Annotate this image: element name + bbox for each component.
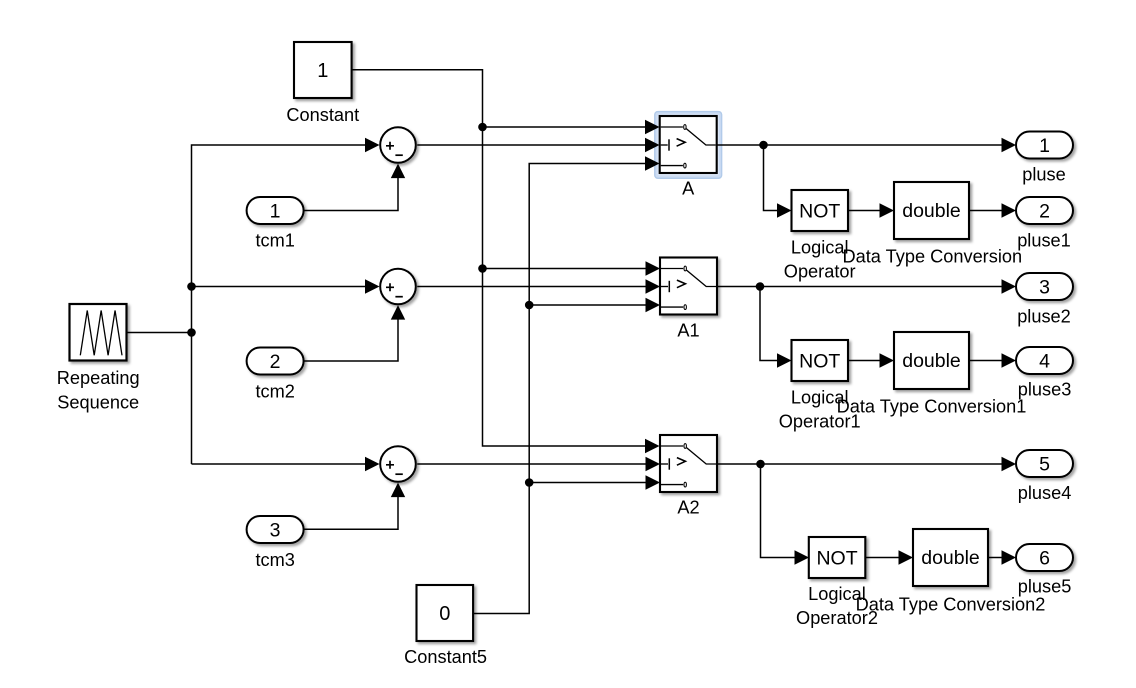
wire NOT1 to double1 row2: [848, 360, 880, 362]
wire Sum2 output to Switch A1 input 2: [417, 286, 645, 288]
svg-text:1: 1: [270, 201, 281, 223]
inport tcm1: [247, 197, 304, 224]
wire branch rail x191 to Sum2 input: [192, 286, 366, 288]
svg-text:A2: A2: [677, 498, 699, 518]
junction at rail x529 row A1 input3: [525, 301, 534, 310]
svg-text:pluse5: pluse5: [1018, 577, 1072, 597]
block double1 Data Type Conversion1: [894, 332, 969, 389]
sum block Sum1: [380, 127, 416, 163]
junction rail x191 RS output: [187, 328, 196, 337]
junction at rail x482 row A input1: [478, 123, 487, 132]
svg-text:1: 1: [317, 60, 328, 82]
svg-text:tcm3: tcm3: [255, 550, 294, 570]
wire branch rail x529 to Switch A1 input 3: [529, 304, 645, 306]
svg-text:pluse: pluse: [1022, 165, 1065, 185]
wire branch to NOT Logical Operator: [764, 145, 778, 211]
block NOT1 Logical Operator1: [792, 340, 849, 381]
wire Switch A output to outport pluse: [717, 144, 1001, 146]
block NOT2 Logical Operator2: [809, 537, 866, 578]
svg-text:NOT: NOT: [799, 201, 840, 223]
wire Switch A2 output to outport pluse4: [717, 463, 1001, 465]
wire double2 to outport pluse5: [988, 557, 1002, 559]
svg-text:3: 3: [1039, 277, 1050, 299]
wire branch rail x482 to Switch A input 1: [483, 126, 646, 128]
junction at rail x482 row A1 input1: [478, 264, 487, 273]
wire rail x191 bottom to Sum3 input: [192, 463, 366, 465]
wire Repeating Sequence output to rail x191: [127, 332, 192, 334]
switch block A selected: [660, 116, 717, 173]
junction rail x191 Sum2 row: [187, 282, 196, 291]
wire Constant5 to rail x529 up to Switch A input 3: [473, 164, 645, 614]
sum block Sum3: [380, 446, 416, 482]
selection halo of switch block A: [655, 112, 722, 179]
svg-text:tcm2: tcm2: [255, 382, 294, 402]
block double Data Type Conversion: [894, 182, 969, 239]
wire double to outport pluse1: [969, 210, 1002, 212]
wire branch to NOT Logical Operator2: [761, 464, 795, 558]
junction Switch A2 output: [756, 460, 765, 469]
block Constant5 value 0: [417, 585, 474, 641]
svg-text:pluse2: pluse2: [1017, 306, 1071, 326]
svg-text:tcm1: tcm1: [255, 231, 294, 251]
inport tcm2: [247, 348, 304, 375]
wire tcm2 to Sum2 bottom: [304, 319, 398, 361]
svg-text:Data Type Conversion2: Data Type Conversion2: [856, 595, 1046, 615]
outport pluse2: [1016, 273, 1073, 300]
wire Switch A1 output to outport pluse2: [717, 286, 1002, 288]
svg-text:0: 0: [439, 603, 450, 625]
wire branch rail x482 to Switch A1 input 1: [483, 268, 646, 270]
outport pluse3: [1016, 347, 1073, 374]
junction at rail x529 row A2 input3: [525, 478, 534, 487]
wire rail x191 to Sum1 input: [192, 145, 366, 464]
wire branch rail x529 to Switch A2 input 3: [529, 482, 645, 484]
sum block Sum2: [380, 269, 416, 305]
wire tcm3 to Sum3 bottom: [304, 497, 398, 530]
svg-text:Data Type Conversion: Data Type Conversion: [842, 246, 1022, 266]
svg-text:2: 2: [270, 351, 281, 373]
wire Sum3 output to Switch A2 input 2: [417, 463, 645, 465]
svg-text:6: 6: [1039, 548, 1050, 570]
wire Constant to rail x482 down to Switch A2 input 1: [352, 70, 646, 446]
junction Switch A output: [759, 141, 768, 150]
svg-text:A: A: [682, 179, 695, 199]
svg-text:NOT: NOT: [799, 351, 840, 373]
svg-text:pluse1: pluse1: [1017, 230, 1071, 250]
svg-text:5: 5: [1039, 454, 1050, 476]
svg-text:Constant: Constant: [286, 105, 359, 125]
svg-text:Repeating: Repeating: [57, 368, 140, 388]
svg-text:A1: A1: [677, 321, 699, 341]
block double2 Data Type Conversion2: [913, 529, 988, 586]
svg-text:pluse4: pluse4: [1018, 483, 1072, 503]
block Repeating Sequence: [70, 304, 127, 361]
block Constant value 1: [294, 42, 352, 98]
svg-text:Constant5: Constant5: [404, 647, 487, 667]
svg-text:Data Type Conversion1: Data Type Conversion1: [837, 396, 1027, 416]
wire Sum1 output to Switch A input 2: [417, 144, 645, 146]
svg-text:double: double: [902, 200, 961, 222]
inport tcm3: [247, 516, 304, 543]
outport pluse: [1016, 132, 1073, 159]
junction Switch A1 output: [756, 282, 765, 291]
wire branch to NOT Logical Operator1: [760, 287, 777, 361]
wire tcm1 to Sum1 bottom: [304, 178, 398, 211]
svg-text:double: double: [921, 547, 980, 569]
wire double1 to outport pluse3: [969, 360, 1002, 362]
outport pluse5: [1016, 544, 1073, 571]
svg-text:Sequence: Sequence: [57, 393, 139, 413]
svg-text:3: 3: [270, 520, 281, 542]
wire NOT2 to double2 row3: [865, 557, 898, 559]
svg-text:1: 1: [1039, 135, 1050, 157]
svg-text:2: 2: [1039, 201, 1050, 223]
svg-text:NOT: NOT: [816, 548, 857, 570]
block NOT Logical Operator: [792, 190, 849, 231]
wire NOT to double row1: [848, 210, 880, 212]
switch block A1: [660, 258, 717, 315]
outport pluse4: [1016, 450, 1073, 477]
svg-text:4: 4: [1039, 351, 1050, 373]
svg-text:Logical: Logical: [791, 238, 849, 258]
switch block A2: [660, 435, 717, 492]
svg-text:pluse3: pluse3: [1018, 380, 1072, 400]
outport pluse1: [1016, 197, 1073, 224]
svg-text:double: double: [902, 350, 961, 372]
